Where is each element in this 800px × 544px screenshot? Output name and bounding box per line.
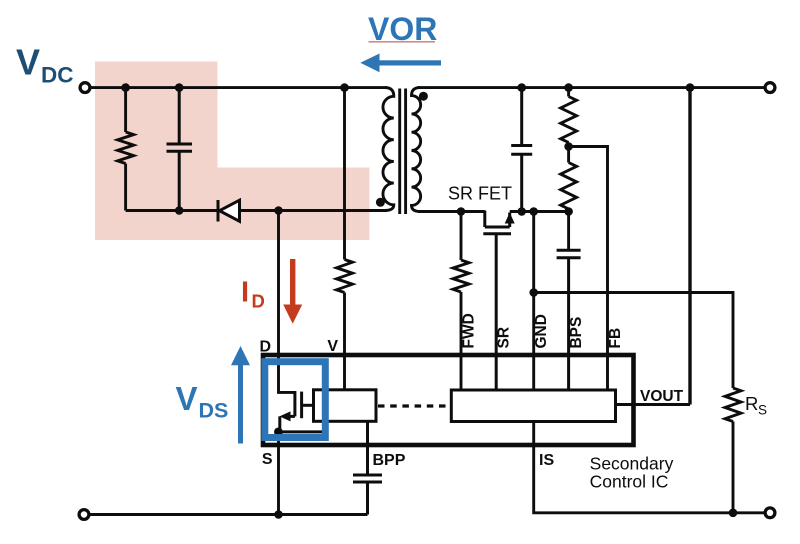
wire source S [277, 432, 280, 515]
ID arrow [283, 259, 302, 324]
wire V line with resistor [337, 88, 353, 390]
primary MOSFET [278, 391, 324, 432]
junction dot snubber C bottom [175, 206, 184, 215]
svg-text:V: V [176, 380, 198, 417]
junction dot drain branch [274, 206, 283, 215]
svg-text:VOUT: VOUT [640, 388, 684, 405]
label Secondary Control IC [590, 454, 674, 492]
svg-text:SR FET: SR FET [448, 184, 512, 204]
svg-text:IS: IS [539, 452, 554, 469]
snubber capacitor [167, 88, 193, 211]
svg-text:GND: GND [533, 314, 550, 348]
svg-text:D: D [252, 291, 265, 312]
junction dot FB tap [564, 142, 573, 151]
highlight region (snubber clamp area) [95, 62, 370, 241]
svg-text:Control IC: Control IC [590, 472, 669, 492]
wire bottom rail [90, 513, 367, 516]
resistor RS [725, 388, 741, 513]
label VDC [16, 42, 74, 88]
svg-text:Secondary: Secondary [590, 454, 674, 474]
output capacitor [511, 88, 532, 212]
junction dot rail-Vline [340, 83, 349, 92]
svg-text:FWD: FWD [460, 313, 477, 348]
wire secondary bottom left [418, 210, 485, 213]
wire drain D [279, 211, 295, 393]
junction dot rail VOUT [686, 83, 695, 92]
dashed link [378, 404, 451, 407]
secondary controller block [451, 390, 615, 422]
wire FWD with resistor [453, 212, 469, 391]
terminal bottom-left [79, 510, 89, 520]
secondary polarity dot [419, 92, 428, 101]
VOR underline [369, 41, 436, 43]
label VDS [176, 380, 229, 423]
primary polarity dot [376, 198, 385, 207]
wire IS [534, 422, 764, 513]
junction dot rail divider [564, 83, 573, 92]
blue highlight box [265, 362, 326, 438]
SR FET [483, 211, 511, 391]
wire VOUT [616, 403, 691, 406]
blocking diode [218, 200, 240, 222]
IC box Secondary Control IC [263, 355, 634, 445]
svg-text:R: R [745, 393, 758, 414]
BPP capacitor [353, 422, 382, 515]
junction dot GND-Rs [529, 288, 538, 297]
wire FB [569, 147, 608, 391]
svg-text:FB: FB [607, 328, 624, 349]
wire top rail primary side [91, 86, 387, 89]
svg-text:I: I [241, 276, 249, 308]
terminal bottom-right [765, 508, 775, 518]
svg-text:S: S [262, 451, 273, 468]
terminal top-right [765, 83, 775, 93]
BPS divider resistor upper [561, 88, 577, 163]
BPS divider resistor lower [561, 163, 577, 251]
junction dot output cap bottom [517, 207, 526, 216]
junction dot BPS chain bottom [564, 207, 573, 216]
terminal top-left [80, 83, 90, 93]
transformer core [400, 89, 406, 215]
wire GND [532, 212, 535, 391]
transformer secondary winding [412, 88, 421, 212]
junction dot MOSFET source [274, 428, 283, 437]
junction dot rail output cap [517, 83, 526, 92]
wire top rail secondary side [418, 86, 764, 89]
svg-text:BPP: BPP [373, 452, 406, 469]
VOR arrow [360, 54, 441, 73]
junction dot rail-R [121, 83, 130, 92]
label RS [745, 393, 767, 418]
wire secondary bottom right [510, 210, 569, 213]
svg-text:D: D [259, 339, 271, 356]
svg-text:DC: DC [41, 63, 74, 88]
VDS arrow [231, 346, 250, 444]
junction dot GND tap [529, 207, 538, 216]
junction dot IS-Rs [729, 509, 738, 518]
svg-text:SR: SR [496, 327, 513, 349]
svg-text:V: V [327, 338, 338, 355]
transformer primary winding [383, 88, 394, 211]
snubber resistor [118, 88, 134, 211]
junction dot FWD tap [457, 207, 466, 216]
BPS capacitor [557, 250, 581, 390]
SR FET arrow [505, 213, 515, 224]
junction dot rail-C [175, 83, 184, 92]
svg-text:BPS: BPS [568, 317, 585, 349]
wire snubber bottom [126, 209, 218, 212]
label ID [241, 276, 265, 311]
svg-text:DS: DS [199, 398, 229, 422]
svg-text:S: S [758, 403, 767, 418]
wire GND to Rs [534, 293, 733, 389]
junction dot S-rail [274, 510, 283, 519]
primary MOSFET arrow [280, 411, 291, 421]
gate driver block [314, 390, 377, 422]
svg-text:V: V [16, 42, 40, 83]
